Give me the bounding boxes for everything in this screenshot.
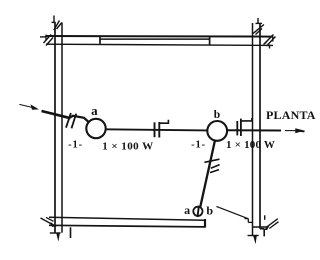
svg-text:1 × 100 W: 1 × 100 W	[102, 140, 153, 152]
svg-text:a: a	[184, 203, 190, 217]
svg-text:b: b	[214, 109, 220, 121]
svg-text:PLANTA: PLANTA	[266, 108, 316, 122]
svg-text:-1-: -1-	[68, 140, 83, 151]
svg-text:-1-: -1-	[191, 139, 206, 150]
svg-text:1 × 100 W: 1 × 100 W	[226, 139, 275, 151]
svg-text:a: a	[91, 103, 98, 118]
svg-text:b: b	[206, 203, 213, 217]
